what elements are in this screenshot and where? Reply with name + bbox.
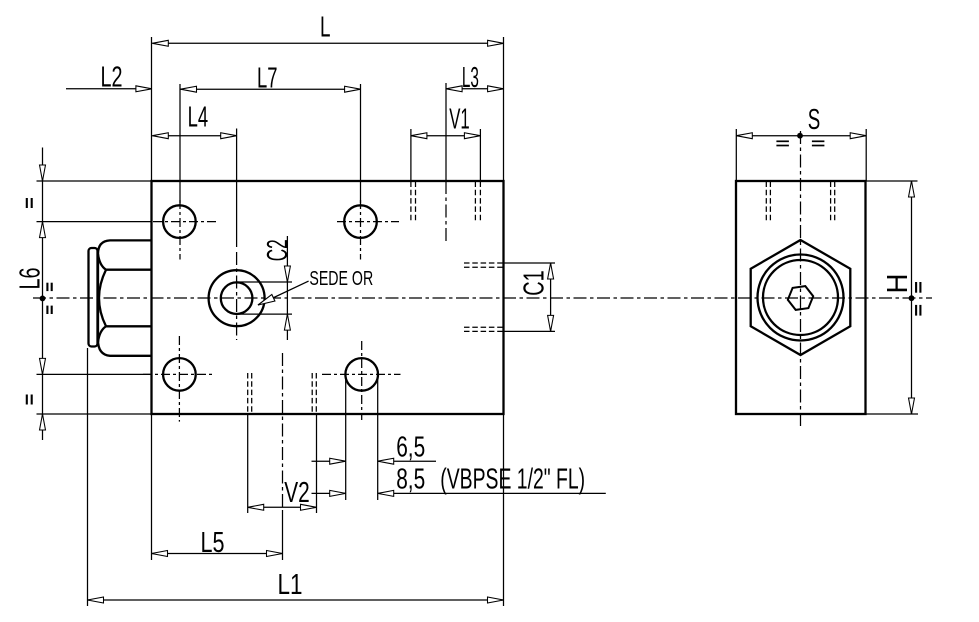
svg-text:L1: L1 — [278, 569, 303, 601]
svg-text:L4: L4 — [188, 102, 209, 134]
svg-text:H: H — [882, 274, 914, 294]
svg-text:(VBPSE 1/2" FL): (VBPSE 1/2" FL) — [440, 463, 585, 495]
svg-text:L7: L7 — [257, 63, 278, 95]
svg-text:V2: V2 — [284, 477, 310, 509]
svg-text:C1: C1 — [519, 270, 551, 296]
svg-text:L3: L3 — [462, 62, 479, 94]
svg-text:L6: L6 — [15, 268, 47, 290]
svg-text:SEDE OR: SEDE OR — [309, 268, 373, 290]
svg-text:8,5: 8,5 — [396, 463, 425, 495]
svg-text:S: S — [808, 104, 821, 136]
svg-text:6,5: 6,5 — [396, 432, 425, 464]
svg-text:C2: C2 — [262, 239, 294, 261]
svg-text:L5: L5 — [201, 527, 225, 559]
svg-text:L: L — [320, 12, 331, 44]
svg-text:L2: L2 — [101, 62, 123, 94]
svg-text:V1: V1 — [449, 103, 470, 135]
